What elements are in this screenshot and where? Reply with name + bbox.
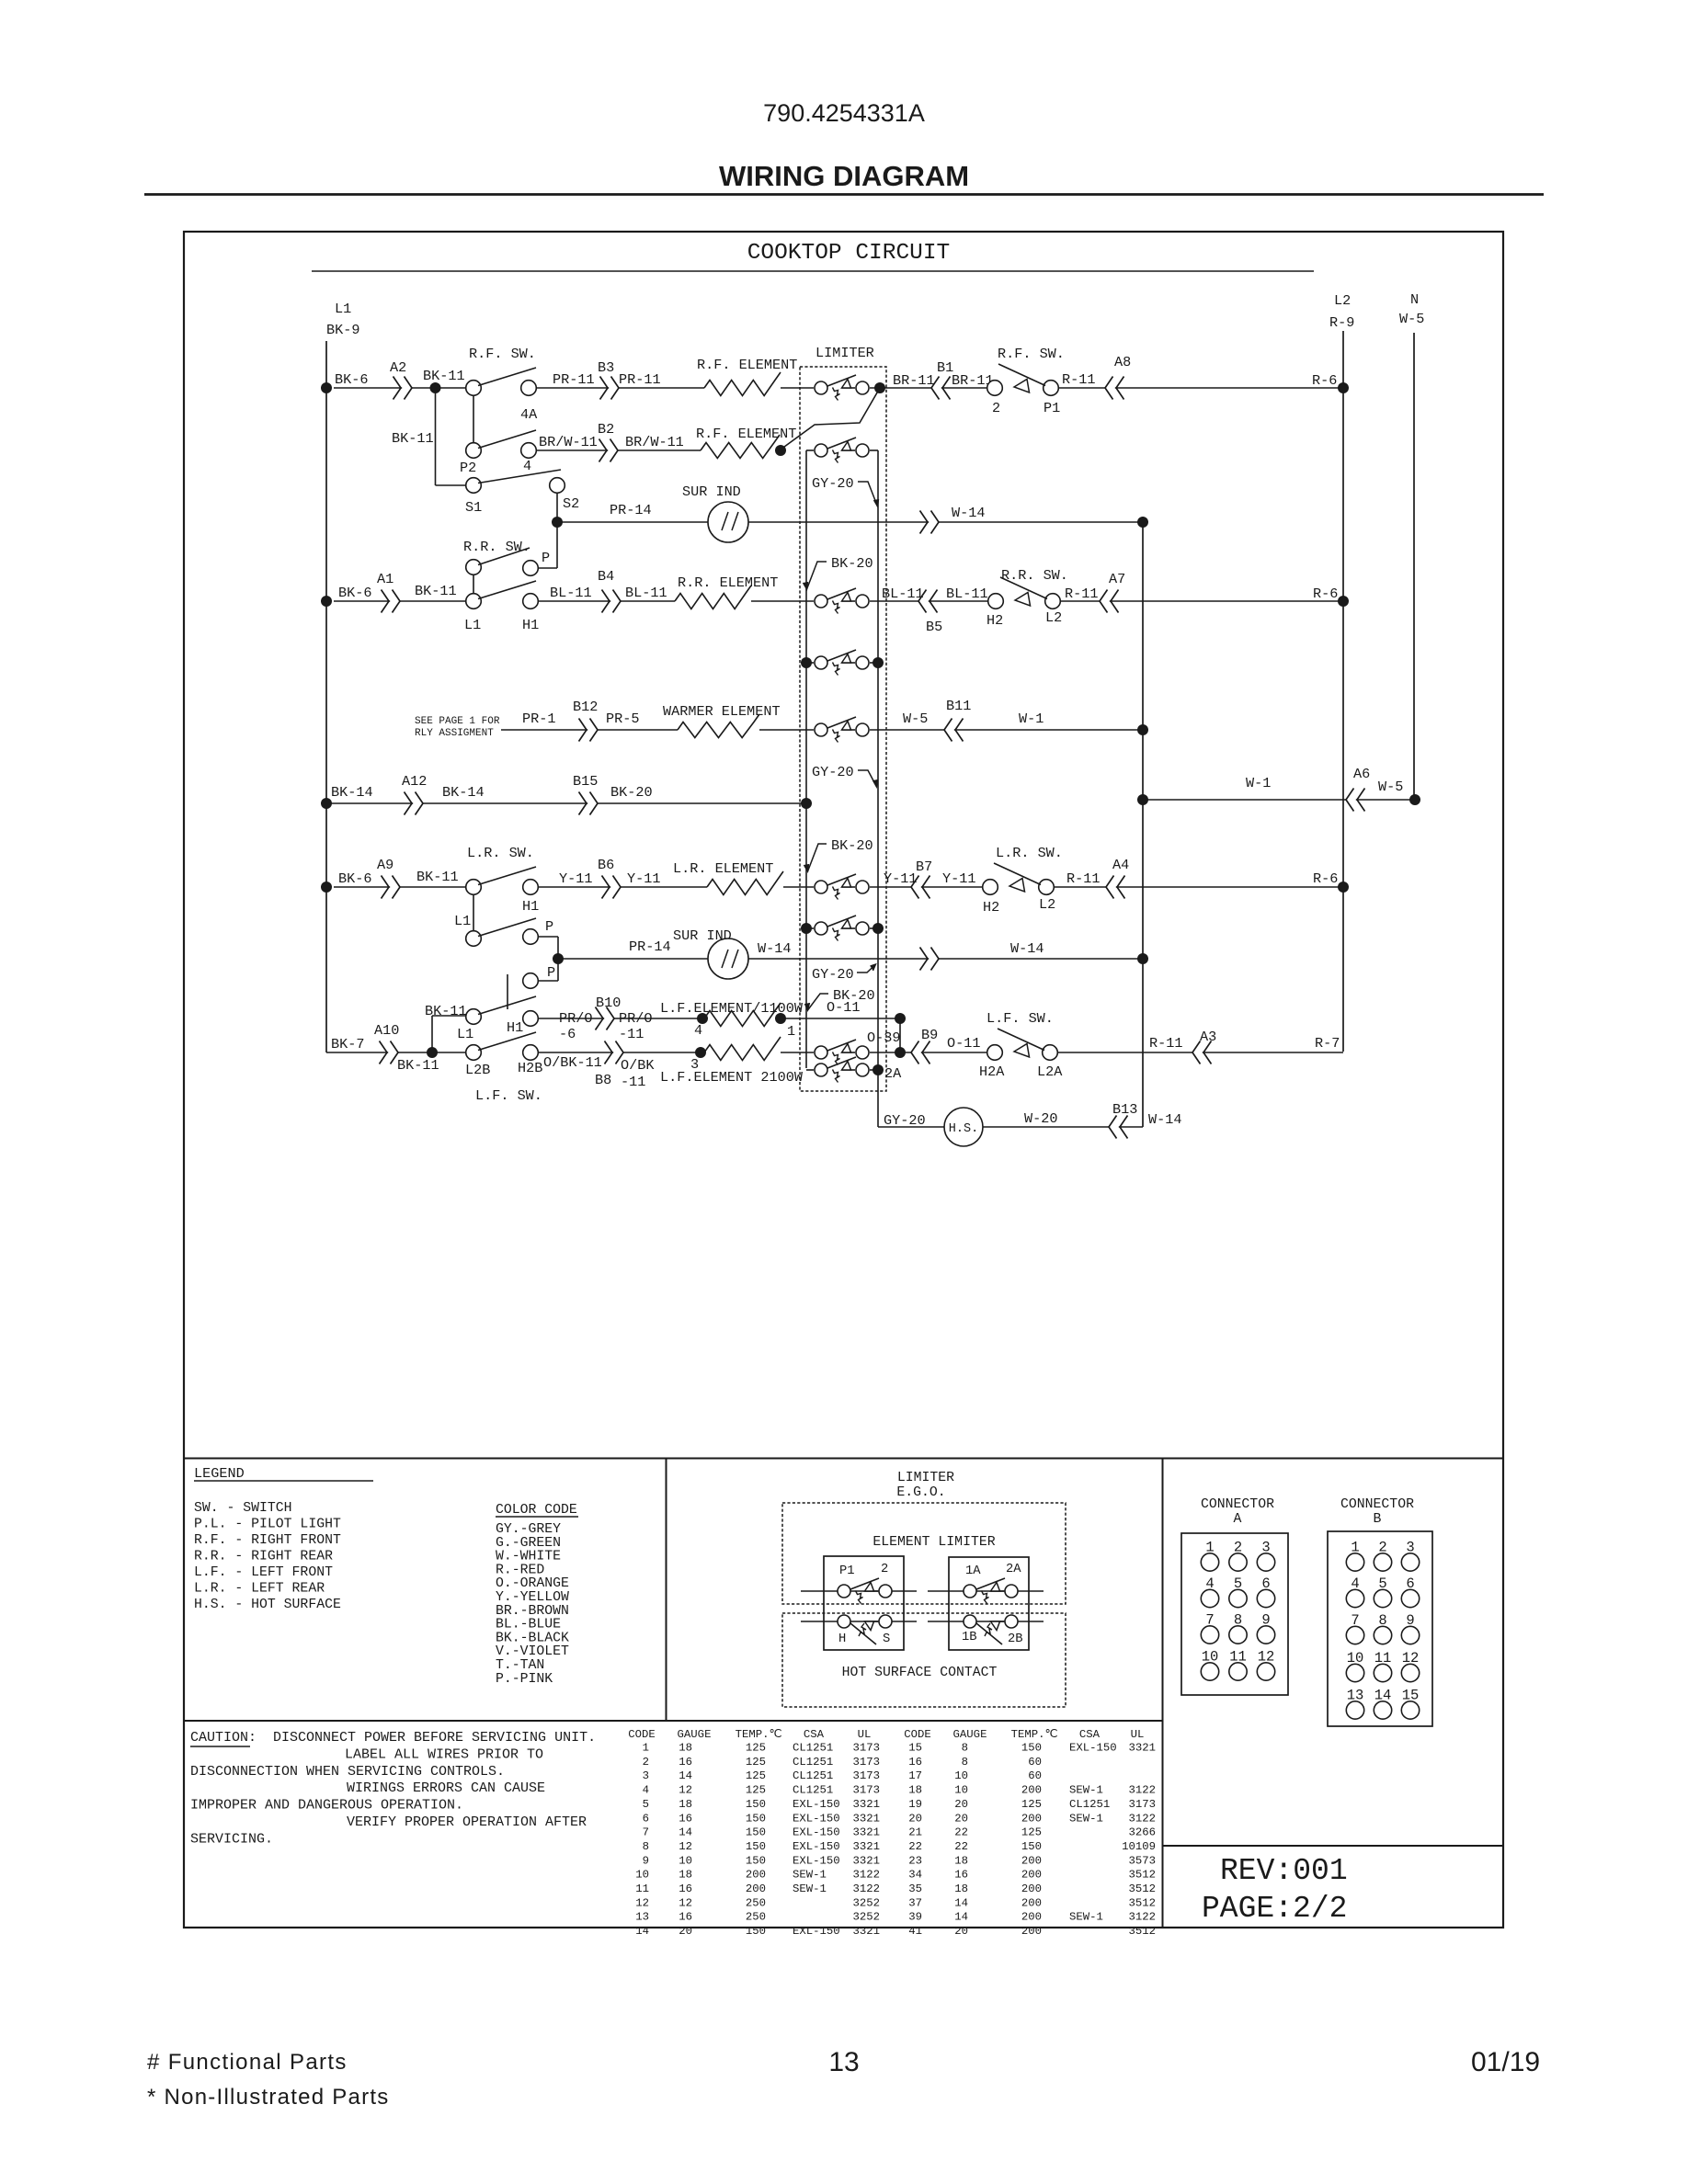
leader GY-20 3	[857, 964, 876, 973]
svg-text:790.4254331A: 790.4254331A	[763, 99, 925, 127]
R.R. SW. arm L1	[478, 581, 536, 599]
svg-text:REV:001: REV:001	[1220, 1854, 1348, 1888]
svg-text:A3: A3	[1200, 1029, 1216, 1045]
svg-text:3173: 3173	[852, 1756, 880, 1769]
connector chevron A8	[1105, 377, 1124, 400]
svg-text:W.-WHITE: W.-WHITE	[496, 1550, 561, 1564]
junction crossover left	[801, 657, 812, 668]
terminal P	[523, 561, 539, 576]
pilot light P.L. LF	[1014, 1044, 1030, 1058]
svg-text:250: 250	[746, 1896, 766, 1909]
svg-text:20: 20	[954, 1925, 968, 1938]
lamp slash 1	[722, 512, 728, 530]
svg-text:BL-11: BL-11	[550, 585, 592, 601]
svg-text:1: 1	[787, 1023, 795, 1040]
svg-text:SEW-1: SEW-1	[1069, 1911, 1103, 1924]
terminal H2	[983, 880, 998, 895]
L.R. SW. arm	[478, 867, 536, 885]
svg-text:CODE: CODE	[628, 1728, 656, 1741]
svg-text:B15: B15	[573, 773, 598, 790]
svg-text:1B: 1B	[962, 1631, 977, 1644]
svg-text:EXL-150: EXL-150	[793, 1812, 840, 1825]
connector B hole 6	[1401, 1589, 1419, 1607]
divider vertical 2	[1162, 1459, 1164, 1928]
svg-text:200: 200	[1021, 1784, 1042, 1797]
svg-text:6: 6	[643, 1812, 649, 1825]
wire 2100W to limiter	[781, 1052, 814, 1053]
EGO switch H-S	[838, 1615, 892, 1644]
svg-text:Y.-YELLOW: Y.-YELLOW	[496, 1590, 569, 1605]
svg-text:60: 60	[1028, 1756, 1042, 1769]
svg-text:# Functional Parts: # Functional Parts	[147, 2050, 348, 2075]
junction RR/L2 bus	[1338, 596, 1349, 607]
svg-text:R.F. SW.: R.F. SW.	[469, 346, 536, 362]
divider vertical 1	[666, 1459, 667, 1722]
terminal S2	[550, 478, 565, 494]
svg-text:B5: B5	[926, 619, 942, 635]
svg-text:R-6: R-6	[1313, 586, 1338, 602]
svg-text:-11: -11	[621, 1074, 645, 1090]
connector chevron B12	[579, 719, 599, 742]
wire crossover2 stub right	[870, 927, 878, 929]
svg-text:19: 19	[908, 1798, 922, 1811]
connector B hole 2	[1374, 1553, 1391, 1571]
wire BL-11 out	[870, 600, 988, 602]
wire second pole stub right	[870, 1069, 878, 1071]
limiter switch crossover 2	[815, 916, 869, 941]
svg-text:EXL-150: EXL-150	[793, 1826, 840, 1839]
svg-text:3512: 3512	[1128, 1869, 1156, 1882]
wire EGO row1 right	[928, 1590, 1044, 1592]
svg-text:GY-20: GY-20	[812, 475, 854, 492]
svg-text:4: 4	[523, 458, 531, 474]
svg-text:3321: 3321	[852, 1854, 880, 1867]
svg-text:16: 16	[954, 1869, 968, 1882]
resistor L.R. element	[707, 871, 783, 895]
wire P stub	[538, 567, 557, 569]
svg-text:3573: 3573	[1128, 1854, 1156, 1867]
connector B hole 13	[1346, 1701, 1363, 1719]
svg-text:L.R. ELEMENT: L.R. ELEMENT	[673, 860, 773, 877]
svg-text:18: 18	[679, 1869, 692, 1882]
limiter switch LF pole2	[815, 1057, 869, 1083]
svg-text:L.R. SW.: L.R. SW.	[467, 845, 534, 861]
svg-text:S: S	[883, 1632, 890, 1646]
svg-text:CAUTION: DISCONNECT POWER BEF: CAUTION: DISCONNECT POWER BEFORE SERVICI…	[190, 1730, 596, 1746]
wire P branch vertical	[556, 522, 558, 568]
svg-text:2: 2	[881, 1563, 888, 1576]
svg-text:15: 15	[908, 1742, 922, 1755]
svg-text:CL1251: CL1251	[793, 1769, 833, 1782]
svg-text:10: 10	[635, 1869, 649, 1882]
limiter switch warmer	[815, 717, 869, 743]
svg-text:GY-20: GY-20	[812, 764, 854, 780]
svg-text:L1: L1	[457, 1026, 473, 1042]
svg-text:PR-14: PR-14	[610, 502, 652, 518]
svg-text:R-11: R-11	[1065, 586, 1098, 602]
svg-text:B2: B2	[598, 421, 614, 438]
wire Y-11 out	[870, 886, 988, 888]
svg-text:BK-7: BK-7	[331, 1036, 364, 1052]
wire pole link	[473, 395, 474, 442]
connector chevron A4	[1106, 876, 1125, 899]
svg-text:SEW-1: SEW-1	[793, 1869, 827, 1882]
svg-text:B8: B8	[595, 1072, 611, 1088]
junction element/limiter link	[775, 445, 786, 456]
svg-text:S2: S2	[563, 495, 579, 512]
svg-text:W-1: W-1	[1246, 775, 1271, 791]
svg-text:H2: H2	[987, 612, 1003, 629]
svg-text:PAGE:2/2: PAGE:2/2	[1202, 1892, 1347, 1926]
L.F. SW. pole L2B	[466, 1045, 482, 1061]
svg-text:RLY ASSIGMENT: RLY ASSIGMENT	[415, 728, 494, 739]
svg-text:BR/W-11: BR/W-11	[539, 434, 598, 450]
connector chevron B15	[579, 792, 599, 815]
wire W-5 W-1	[870, 729, 1143, 731]
resistor R.F. element 2	[701, 435, 780, 459]
wire R-11 to bus	[1058, 387, 1343, 389]
wire P lower stub	[538, 980, 558, 982]
svg-text:BK-9: BK-9	[326, 322, 359, 338]
section title underline	[312, 270, 1314, 272]
wire W-1 to N	[1143, 799, 1415, 801]
junction P branch/PR-14	[553, 953, 564, 964]
svg-text:20: 20	[954, 1812, 968, 1825]
svg-text:WIRINGS ERRORS CAN CAUSE: WIRINGS ERRORS CAN CAUSE	[347, 1780, 545, 1796]
junction row1/L2 bus	[1338, 382, 1349, 393]
svg-text:2A: 2A	[1006, 1563, 1021, 1576]
LEGEND underline	[194, 1480, 373, 1482]
wire BK-7 row	[326, 1052, 466, 1053]
connector B hole 4	[1346, 1589, 1363, 1607]
connector B box	[1328, 1531, 1432, 1726]
svg-text:H2: H2	[983, 899, 999, 916]
svg-text:A2: A2	[390, 359, 406, 376]
svg-text:EXL-150: EXL-150	[793, 1854, 840, 1867]
svg-text:14: 14	[635, 1925, 649, 1938]
svg-text:20: 20	[679, 1925, 692, 1938]
svg-text:35: 35	[908, 1883, 922, 1895]
wire limiter left vertical BK-20	[805, 450, 807, 1068]
svg-text:COOKTOP CIRCUIT: COOKTOP CIRCUIT	[747, 241, 951, 266]
svg-text:5: 5	[643, 1798, 649, 1811]
junction row1/S1 branch	[430, 382, 441, 393]
wire to S1	[436, 484, 467, 486]
svg-text:GAUGE: GAUGE	[953, 1728, 987, 1741]
wire crossover stub right	[870, 662, 878, 664]
R.F. SW. arm right	[998, 364, 1045, 386]
svg-text:12: 12	[679, 1896, 692, 1909]
wire pole link	[473, 574, 474, 594]
svg-text:-6: -6	[559, 1026, 576, 1042]
L.R. SW. pole lower	[466, 931, 482, 947]
svg-text:10: 10	[954, 1769, 968, 1782]
terminal H2A	[987, 1045, 1003, 1061]
svg-text:P1: P1	[1044, 400, 1060, 416]
svg-text:SUR IND: SUR IND	[682, 483, 741, 500]
svg-text:18: 18	[679, 1742, 692, 1755]
svg-text:R.R. ELEMENT: R.R. ELEMENT	[678, 574, 778, 591]
wire to limiter LR	[783, 886, 814, 888]
connector chevron A12	[405, 792, 424, 815]
svg-text:R-6: R-6	[1312, 372, 1337, 389]
divider caution top	[184, 1720, 1163, 1722]
junction LF pole branch	[427, 1047, 438, 1058]
svg-text:150: 150	[746, 1840, 766, 1853]
wire BK-6 RR	[334, 600, 466, 602]
wire PR-1	[501, 729, 678, 731]
connector chevron B7	[911, 876, 930, 899]
svg-text:200: 200	[1021, 1911, 1042, 1924]
svg-text:LIMITER: LIMITER	[815, 345, 874, 361]
svg-text:14: 14	[954, 1911, 968, 1924]
svg-text:150: 150	[1021, 1840, 1042, 1853]
connector chevron B3	[600, 377, 620, 400]
svg-text:150: 150	[746, 1826, 766, 1839]
wire BK-6 row1	[334, 387, 466, 389]
connector chevron B13	[1109, 1116, 1128, 1139]
svg-text:125: 125	[746, 1756, 766, 1769]
wire O/BK-11	[538, 1052, 701, 1053]
svg-text:125: 125	[1021, 1826, 1042, 1839]
connector B hole 8	[1374, 1626, 1391, 1644]
svg-text:IMPROPER AND DANGEROUS OPERATI: IMPROPER AND DANGEROUS OPERATION.	[190, 1798, 463, 1814]
svg-text:2: 2	[643, 1756, 649, 1769]
EGO switch 1A-2A	[964, 1578, 1018, 1604]
L.R. SW. arm right	[994, 863, 1041, 885]
svg-text:3266: 3266	[1128, 1826, 1156, 1839]
svg-text:CL1251: CL1251	[793, 1784, 833, 1797]
junction W-1/W-14 vertical	[1137, 794, 1148, 805]
svg-text:150: 150	[746, 1812, 766, 1825]
limiter switch LR	[815, 874, 869, 900]
svg-text:B11: B11	[946, 698, 971, 714]
svg-text:8: 8	[962, 1756, 968, 1769]
wire second pole stub	[806, 1069, 814, 1071]
svg-text:WARMER ELEMENT: WARMER ELEMENT	[663, 703, 781, 720]
junction 1100W left	[697, 1013, 708, 1024]
svg-text:L2B: L2B	[465, 1062, 490, 1078]
svg-text:L2: L2	[1039, 896, 1055, 913]
svg-text:BK-20: BK-20	[610, 784, 653, 801]
svg-text:12: 12	[679, 1840, 692, 1853]
connector A hole 9	[1257, 1626, 1274, 1644]
wire EGO row2 right	[928, 1621, 1044, 1622]
svg-text:GY-20: GY-20	[812, 966, 854, 983]
wire W-14 vertical	[1142, 522, 1144, 1127]
svg-text:BK.-BLACK: BK.-BLACK	[496, 1631, 569, 1645]
connector B hole 11	[1374, 1664, 1391, 1681]
svg-text:BK-6: BK-6	[338, 585, 371, 601]
wire GY-20 HS	[878, 1126, 944, 1128]
svg-text:BL-11: BL-11	[882, 586, 924, 602]
junction L1/RR row	[321, 596, 332, 607]
svg-text:4: 4	[643, 1784, 649, 1797]
svg-text:P1: P1	[839, 1564, 855, 1578]
svg-text:W-5: W-5	[903, 711, 928, 727]
connector chevron B11	[944, 719, 964, 742]
connector B hole 15	[1401, 1701, 1419, 1719]
svg-text:CL1251: CL1251	[793, 1742, 833, 1755]
svg-text:BR-11: BR-11	[893, 372, 935, 389]
R.F. SW. pole circle	[466, 381, 482, 396]
wire BR/W-11	[536, 449, 701, 451]
svg-text:22: 22	[908, 1840, 922, 1853]
S1 arm	[478, 470, 561, 483]
svg-text:A1: A1	[377, 571, 393, 587]
switch link line	[507, 974, 508, 1009]
limiter switch LF	[815, 1040, 869, 1065]
svg-text:BK-11: BK-11	[397, 1057, 439, 1074]
lamp slash 2	[732, 512, 738, 530]
terminal H2	[988, 594, 1004, 609]
svg-text:3321: 3321	[852, 1925, 880, 1938]
svg-text:H.S.: H.S.	[949, 1122, 978, 1136]
svg-text:L.R. - LEFT REAR: L.R. - LEFT REAR	[194, 1582, 325, 1597]
svg-text:B: B	[1374, 1512, 1382, 1527]
connector chevron A3	[1192, 1041, 1212, 1064]
svg-text:R-9: R-9	[1329, 314, 1354, 331]
svg-text:SW. - SWITCH: SW. - SWITCH	[194, 1501, 292, 1516]
lamp slash 2	[732, 950, 738, 968]
svg-text:P.L. - PILOT LIGHT: P.L. - PILOT LIGHT	[194, 1518, 341, 1532]
svg-text:P: P	[547, 964, 555, 981]
svg-text:A10: A10	[374, 1022, 399, 1039]
svg-text:H2A: H2A	[979, 1064, 1005, 1080]
svg-text:3252: 3252	[852, 1911, 880, 1924]
svg-text:COLOR CODE: COLOR CODE	[496, 1503, 577, 1518]
svg-text:O/BK-11: O/BK-11	[543, 1054, 602, 1071]
svg-text:EXL-150: EXL-150	[793, 1840, 840, 1853]
leader BK-20 3	[808, 994, 829, 1010]
svg-text:3173: 3173	[852, 1742, 880, 1755]
junction L1/A12 row	[321, 798, 332, 809]
terminal P1	[1044, 381, 1059, 396]
svg-text:O-11: O-11	[827, 999, 860, 1016]
EGO switch P1-2	[838, 1578, 892, 1604]
svg-text:125: 125	[746, 1742, 766, 1755]
svg-text:16: 16	[679, 1883, 692, 1895]
wire limiter box top left	[806, 449, 814, 451]
svg-text:3321: 3321	[852, 1812, 880, 1825]
svg-text:4: 4	[694, 1022, 702, 1039]
wire S2 down	[556, 493, 558, 522]
svg-text:R-7: R-7	[1315, 1035, 1340, 1052]
svg-text:L2: L2	[1045, 609, 1062, 626]
lamp slash 1	[722, 950, 728, 968]
svg-text:BK-6: BK-6	[338, 870, 371, 887]
svg-text:TEMP.℃: TEMP.℃	[736, 1728, 782, 1741]
pilot light P.L. LR	[1009, 879, 1025, 893]
svg-text:H1: H1	[507, 1019, 523, 1036]
resistor R.R. element	[675, 586, 751, 609]
wire branch to S1	[435, 388, 437, 485]
connector chevron W-14	[920, 511, 940, 534]
svg-text:21: 21	[908, 1826, 922, 1839]
svg-text:BR.-BROWN: BR.-BROWN	[496, 1604, 569, 1619]
L.F. SW. arm right	[998, 1029, 1044, 1051]
svg-text:L.F. SW.: L.F. SW.	[987, 1010, 1054, 1027]
svg-text:3122: 3122	[852, 1869, 880, 1882]
wire crossover2 stub left	[806, 927, 814, 929]
svg-text:3252: 3252	[852, 1896, 880, 1909]
svg-text:-11: -11	[619, 1026, 644, 1042]
svg-text:O.-ORANGE: O.-ORANGE	[496, 1576, 569, 1591]
svg-text:H.S. - HOT SURFACE: H.S. - HOT SURFACE	[194, 1598, 341, 1612]
wire PR-14	[557, 521, 708, 523]
connector A hole 3	[1257, 1553, 1274, 1571]
svg-text:11: 11	[635, 1883, 649, 1895]
wire PR/O-6	[538, 1018, 702, 1019]
wire 0-39 vertical	[899, 1018, 901, 1052]
svg-text:P2: P2	[460, 460, 476, 476]
svg-text:PR-14: PR-14	[629, 938, 671, 955]
svg-text:20: 20	[954, 1798, 968, 1811]
svg-text:8: 8	[962, 1742, 968, 1755]
svg-text:A9: A9	[377, 857, 393, 873]
title rule	[144, 193, 1544, 196]
svg-text:13: 13	[828, 2047, 859, 2077]
junction crossover2 right	[873, 923, 884, 934]
svg-text:12: 12	[679, 1784, 692, 1797]
element limiter box left	[824, 1556, 904, 1650]
connector chevron A2	[393, 377, 413, 400]
svg-text:EXL-150: EXL-150	[793, 1798, 840, 1811]
svg-text:16: 16	[908, 1756, 922, 1769]
wire to L2 bus	[1060, 600, 1343, 602]
connector chevron B6	[602, 876, 622, 899]
arrowhead BK-20 3	[805, 1003, 810, 1010]
svg-text:* Non-Illustrated Parts: * Non-Illustrated Parts	[147, 2085, 390, 2110]
svg-text:LABEL ALL WIRES PRIOR TO: LABEL ALL WIRES PRIOR TO	[345, 1746, 543, 1762]
terminal H1	[523, 880, 539, 895]
resistor warmer element	[678, 714, 759, 738]
limiter switch crossover 1	[815, 650, 869, 676]
svg-text:2B: 2B	[1008, 1632, 1023, 1646]
lamp SUR IND 2	[708, 938, 748, 979]
svg-text:BL-11: BL-11	[946, 586, 988, 602]
svg-text:16: 16	[679, 1812, 692, 1825]
connector chevron B5	[918, 590, 938, 613]
svg-text:3173: 3173	[1128, 1798, 1156, 1811]
svg-text:22: 22	[954, 1840, 968, 1853]
L2B arm	[478, 1032, 536, 1051]
R.R. SW. pole L1	[466, 594, 482, 609]
arrowhead GY-20 3	[871, 964, 876, 971]
connector A hole 12	[1257, 1663, 1274, 1680]
svg-text:B12: B12	[573, 699, 598, 715]
svg-text:L1: L1	[464, 617, 481, 633]
connector B hole 1	[1346, 1553, 1363, 1571]
terminal H1 LF	[523, 1011, 539, 1027]
connector chevron B2	[599, 439, 619, 462]
wire W-20	[983, 1126, 1143, 1128]
svg-text:H1: H1	[522, 617, 539, 633]
connector chevron B8	[605, 1041, 624, 1064]
junction row1 limiter out	[874, 382, 885, 393]
terminal L2	[1039, 880, 1055, 895]
svg-text:O-39: O-39	[867, 1029, 900, 1046]
junction BK-20 vertical	[801, 798, 812, 809]
svg-text:P.-PINK: P.-PINK	[496, 1672, 553, 1687]
terminal 4A	[521, 381, 537, 396]
svg-text:BK-6: BK-6	[335, 371, 368, 388]
svg-text:200: 200	[746, 1883, 766, 1895]
svg-text:B7: B7	[916, 859, 932, 875]
junction crossover2 left	[801, 923, 812, 934]
svg-text:SEW-1: SEW-1	[1069, 1784, 1103, 1797]
wire to limiter RR	[751, 600, 814, 602]
